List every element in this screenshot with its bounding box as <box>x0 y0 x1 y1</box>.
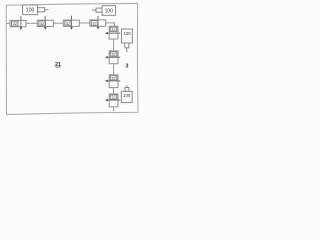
stage SB scan arrow <box>107 56 121 58</box>
stage S2 box <box>37 20 53 26</box>
stage S3 scan arrow <box>71 16 73 27</box>
connector tab of U-TR <box>96 8 102 12</box>
stage SC scan arrow <box>107 80 121 82</box>
wire SD to bottom <box>113 107 115 112</box>
stage S4 scan arrow <box>97 16 99 27</box>
wire SC-SD <box>113 88 115 94</box>
lead wire of U-R2 tab <box>126 85 128 87</box>
svg-text:100: 100 <box>123 31 131 36</box>
svg-text:32: 32 <box>92 21 97 26</box>
svg-text:32: 32 <box>66 21 71 26</box>
lead wire of U-TR tab <box>92 9 96 11</box>
stage S3 box <box>63 20 79 26</box>
connector tab of U-R1 <box>125 43 129 48</box>
stage S4 inner box 32 <box>91 21 97 26</box>
lead wire of U-TL tab <box>45 9 49 11</box>
wire S4 to right column corner <box>106 23 115 26</box>
wire SA-SB <box>113 39 115 51</box>
wire S2-S3 <box>53 22 63 24</box>
stage SD inner box 32 <box>110 95 117 99</box>
stage S1 scan arrow <box>20 16 22 28</box>
wire S3-S4 <box>79 22 90 24</box>
svg-text:3: 3 <box>125 63 128 69</box>
wire S1-S2 <box>26 22 37 24</box>
svg-text:100: 100 <box>123 93 131 98</box>
svg-text:100: 100 <box>105 8 114 14</box>
connector tab of U-R2 <box>125 88 129 92</box>
module U-TL box 100 <box>23 5 38 15</box>
panel outline 3 (outer frame) <box>6 3 138 114</box>
stage S2 inner box 32 <box>39 21 45 26</box>
lead wire of U-R1 tab <box>126 48 128 53</box>
stage SC inner box 32 <box>110 76 117 80</box>
stage SC box <box>109 75 118 88</box>
svg-text:32: 32 <box>12 21 17 26</box>
connector tab of U-TL <box>38 8 45 12</box>
module U-TR box 100 <box>102 6 116 16</box>
stage SA box <box>109 26 118 39</box>
svg-text:32: 32 <box>40 21 45 26</box>
stage SA scan arrow <box>107 32 121 34</box>
module U-R1 box 100 <box>122 29 133 43</box>
wire frame to stage S1 <box>6 22 10 24</box>
stage SB inner box 32 <box>110 52 117 56</box>
svg-text:32: 32 <box>111 27 116 32</box>
svg-text:32: 32 <box>111 95 116 100</box>
module U-R2 box 100 <box>121 91 132 102</box>
stage SD box <box>109 94 118 107</box>
stage S2 scan arrow <box>44 16 46 28</box>
stage S1 box <box>10 20 26 26</box>
stage S3 inner box 32 <box>65 21 71 26</box>
svg-text:100: 100 <box>26 8 35 14</box>
stage SA inner box 32 <box>110 27 117 31</box>
svg-text:32: 32 <box>111 76 116 81</box>
stage S1 inner box 32 <box>12 21 18 26</box>
wire SB-SC <box>113 64 115 75</box>
svg-text:32: 32 <box>111 52 116 57</box>
stage SD scan arrow <box>107 99 121 101</box>
stage S4 box <box>90 20 106 26</box>
stage SB box <box>109 51 118 64</box>
